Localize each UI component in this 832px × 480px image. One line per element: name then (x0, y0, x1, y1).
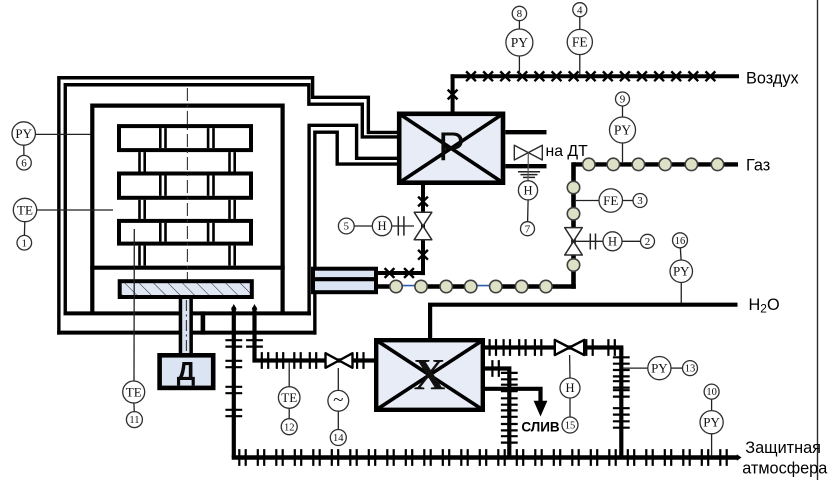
hearth plate hatched (120, 281, 252, 297)
furnace outer wall A with flue pipe top line to recuperator (59, 78, 398, 335)
svg-text:7: 7 (525, 223, 531, 235)
svg-text:Х: Х (414, 350, 446, 399)
wire TE12 to 12 (288, 408, 290, 418)
air branch to burner (378, 271, 425, 275)
svg-text:TE: TE (281, 390, 297, 405)
vent symbol below valve (518, 171, 540, 173)
svg-text:1: 1 (22, 237, 28, 249)
tag 4 (573, 3, 587, 17)
atmosphere right riser V3 (619, 348, 623, 458)
P bottom air drop pipe (421, 183, 425, 275)
svg-text:15: 15 (565, 421, 576, 432)
instrument H-2 (603, 232, 622, 251)
instrument lead wires (24, 17, 712, 456)
capacitance bars H5 (397, 216, 399, 235)
instrument PY-9 (610, 117, 636, 143)
instrument PY-10 (700, 411, 723, 434)
tag 9 (616, 92, 630, 106)
wire PY16 to H2O line (680, 283, 682, 304)
valve na DT (514, 145, 542, 160)
furnace inner wall B with flue pipe bottom line (65, 85, 398, 314)
capacitance bars H2 (589, 234, 591, 250)
instrument H-5 (372, 216, 391, 235)
svg-text:H: H (523, 184, 532, 198)
air line riser into P (451, 74, 455, 111)
H2O line (430, 305, 737, 339)
tag 3 (633, 194, 647, 208)
svg-text:СЛИВ: СЛИВ (521, 420, 560, 435)
furnace wall B bottom left segment (64, 311, 181, 315)
wire 9 to PY9 (622, 106, 624, 117)
wire V3 to PY13 (623, 367, 648, 369)
centre axis line (186, 88, 188, 354)
tag 13 (683, 361, 698, 376)
wire PY6 to furnace (36, 133, 91, 135)
wire PY10 to bottom line (711, 434, 713, 456)
wire PY9 to gas line (622, 143, 624, 162)
furnace chamber wall (92, 106, 282, 313)
wire 5 to H5 (354, 225, 372, 227)
svg-text:Газ: Газ (746, 156, 770, 174)
recuperator U1 box P (399, 114, 503, 183)
gas lower run to burner (378, 284, 397, 288)
tray row 2 (119, 174, 251, 198)
instrument PY-8 (506, 29, 533, 56)
atmosphere line X to right riser (485, 345, 623, 349)
svg-text:2: 2 (645, 236, 651, 248)
drive shaft (182, 299, 191, 354)
instrument H-7 (518, 181, 537, 200)
tray 3 legs (138, 246, 141, 266)
gas main line Газ (574, 162, 739, 166)
instrument FE-4 (567, 29, 592, 54)
instrument circles (12, 3, 723, 446)
instrument PY-16 (670, 260, 693, 283)
svg-text:4: 4 (577, 4, 583, 16)
blue thin gas segments (396, 285, 422, 287)
svg-text:11: 11 (129, 415, 139, 426)
svg-text:10: 10 (706, 387, 717, 398)
tag 10 (704, 384, 719, 399)
svg-text:8: 8 (517, 8, 523, 20)
tag 14 (330, 430, 346, 446)
wire H15 to 15 (569, 398, 571, 417)
svg-text:PY: PY (614, 123, 632, 138)
atmosphere drop pipe V1 from furnace bottom (232, 307, 236, 458)
svg-text:Д: Д (177, 356, 196, 386)
tray row 1 (119, 126, 251, 150)
furnace hearth line (90, 266, 285, 270)
svg-text:TE: TE (17, 202, 33, 217)
gas riser (571, 162, 576, 289)
svg-text:H: H (377, 219, 386, 233)
svg-text:13: 13 (685, 364, 696, 375)
svg-text:Защитная: Защитная (745, 439, 821, 457)
svg-text:Р: Р (438, 125, 465, 169)
tag 6 (17, 155, 32, 170)
instrument H-15 (560, 378, 580, 398)
wire TE12 to line (288, 362, 290, 387)
drain line slive (485, 389, 541, 402)
wire FE3 to gas riser (576, 200, 599, 202)
furnace wall B right side with lower pipe top line (309, 125, 398, 315)
svg-text:14: 14 (333, 433, 344, 444)
wire PY13 to 13 (671, 367, 683, 369)
atmosphere drop pipe V2 from furnace bottom (255, 307, 376, 361)
svg-text:PY: PY (673, 264, 690, 279)
wire PY8 to air line (518, 56, 520, 74)
svg-text:атмосфера: атмосфера (742, 459, 828, 477)
wire TE1 to furnace (37, 209, 113, 211)
wire H2 to 2 (622, 240, 640, 242)
instrument M-14 actuator (328, 390, 349, 411)
instrument TE-11 (123, 381, 145, 403)
wire gas valve to H2 (574, 240, 604, 242)
tag 7 (521, 222, 535, 236)
wire PY6 to 6 (23, 145, 25, 155)
centre axis line over shaft (185, 300, 187, 352)
wire 10 to PY10 (711, 399, 713, 410)
instrument PY-6 (12, 122, 35, 145)
wire H5 to air valve (392, 225, 414, 227)
svg-text:PY: PY (651, 361, 668, 376)
wall partition right of shaft (201, 311, 206, 334)
svg-text:16: 16 (675, 236, 686, 247)
svg-text:12: 12 (284, 422, 295, 433)
heat exchanger U2 box X (376, 340, 483, 410)
tag 15 (562, 417, 578, 433)
tag 2 (641, 234, 655, 248)
svg-text:~: ~ (333, 390, 343, 411)
tag 16 (673, 233, 688, 248)
wire valve to H7 (527, 153, 529, 181)
X marks on air main (448, 71, 716, 99)
X outlet to drop V4 (485, 369, 509, 458)
svg-text:FE: FE (603, 193, 618, 208)
tray 1 legs (138, 152, 141, 171)
svg-text:9: 9 (620, 94, 626, 106)
valve V-air vertical (414, 212, 432, 239)
wire TE11 probe (133, 229, 135, 381)
valve after X (555, 340, 584, 355)
tray row 3 (119, 221, 251, 244)
tick marks groups (225, 339, 726, 466)
furnace wall A bottom left segment (57, 331, 180, 335)
wire valve to H15 (569, 355, 571, 378)
P to DT lower stub (505, 164, 546, 168)
drive motor box Д (160, 355, 214, 388)
wire 14 link (337, 411, 339, 429)
frame border right (817, 0, 819, 480)
tray 2 legs (138, 200, 141, 219)
wire 14 actuator to valve (337, 368, 339, 391)
wire TE11 to 11 (133, 403, 135, 412)
tag 5 (338, 218, 354, 234)
svg-text:H: H (565, 381, 574, 395)
svg-text:PY: PY (703, 415, 720, 430)
gas beads (390, 158, 724, 292)
wire TE1 to 1 (23, 222, 25, 236)
air main line Воздух (451, 74, 740, 78)
svg-text:FE: FE (572, 35, 588, 50)
svg-text:Воздух: Воздух (746, 70, 799, 88)
valve on line to X exchanger (326, 353, 353, 368)
instrument TE-12 (278, 387, 300, 409)
svg-text:5: 5 (344, 221, 350, 233)
tag 8 (512, 6, 526, 20)
furnace wall A right side with lower pipe bottom line (315, 132, 398, 334)
wire FE4 to air line (579, 55, 581, 75)
wire FE3 to 3 (623, 200, 633, 202)
instrument TE-1 (13, 198, 36, 221)
instrument FE-3 (599, 189, 623, 213)
wire 16 to PY16 (679, 247, 682, 260)
tag 12 (281, 419, 297, 435)
instrument PY-13 (648, 357, 671, 380)
svg-text:PY: PY (15, 126, 32, 141)
wire H7 chain (527, 200, 530, 222)
X marks on burner air branch (385, 197, 428, 278)
burner nozzle block (313, 269, 376, 293)
P to DT upper stub (505, 130, 546, 134)
gas valve vertical (565, 228, 583, 255)
svg-text:TE: TE (126, 384, 142, 399)
svg-text:PY: PY (511, 35, 529, 50)
tag 1 (17, 235, 32, 250)
svg-text:на ДТ: на ДТ (546, 143, 589, 160)
bottom line arrow end (737, 454, 742, 461)
drain arrow (534, 401, 548, 417)
wire 8 to PY8 (518, 21, 520, 29)
wire 4 to FE4 (579, 17, 581, 30)
svg-text:3: 3 (637, 195, 643, 207)
tag 11 (126, 412, 142, 428)
svg-text:6: 6 (21, 157, 27, 169)
svg-text:H: H (608, 235, 617, 249)
furnace wall B bottom right segment (191, 311, 311, 315)
furnace wall A bottom right segment (191, 331, 317, 335)
atmosphere bottom main line (232, 455, 738, 460)
